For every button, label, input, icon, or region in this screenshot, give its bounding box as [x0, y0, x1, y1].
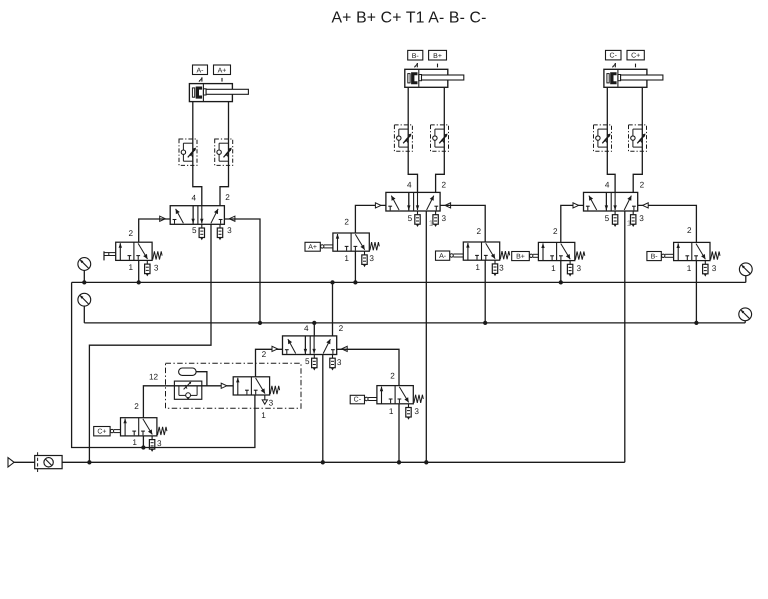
port label 2 valve A- [477, 227, 482, 236]
silencer port 3 valve 1S [145, 260, 150, 276]
cylinder A (double-acting) [189, 84, 248, 102]
silencer port 3 valve 2V1 [433, 211, 438, 227]
roller actuator + label A- [436, 251, 464, 260]
wire valve C- port 1 to bus3 [398, 404, 400, 463]
svg-text:3: 3 [269, 398, 274, 407]
wire valve C+ port 1 to feed line [142, 436, 144, 448]
svg-text:2: 2 [134, 402, 139, 411]
port label 3 valve C+ [157, 439, 162, 448]
svg-text:3: 3 [227, 226, 232, 235]
wire cylinder A left port to valve 1A port 4 [193, 102, 202, 206]
ruler mark A+ [221, 78, 223, 82]
pilot triangle timer input [221, 383, 227, 388]
svg-text:1: 1 [389, 407, 394, 416]
flow control valve 3V3 (cyl C left) [594, 125, 612, 151]
valve C+ roller 3/2 [121, 418, 167, 436]
port label 4 valve 1V1 [192, 193, 197, 202]
wire valve A+ port 2 to valve 2V1 left pilot [355, 205, 386, 233]
ruler mark B+ [437, 64, 439, 68]
wire valve T1 port 2 to bus1 [332, 282, 334, 336]
valve A+ roller 3/2 [333, 233, 379, 251]
svg-text:1: 1 [627, 219, 632, 228]
junction bus2 #2 [312, 321, 316, 325]
svg-text:A+ B+ C+ T1 A- B- C-: A+ B+ C+ T1 A- B- C- [331, 10, 486, 27]
wire valve 3V1 port 1 to bus3 [624, 211, 626, 462]
silencer port 3 valve T1 [330, 355, 335, 371]
flow control valve 2V3 (cyl B left) [394, 125, 412, 151]
svg-text:1: 1 [551, 264, 556, 273]
wire bus1-left drop to C+/timer feed line [72, 282, 255, 447]
cylinder B (double-acting) [405, 69, 464, 87]
junction bus2 #1 [258, 321, 262, 325]
silencer port 3 valve C+ [149, 436, 154, 452]
port label 3 valve T1 [337, 358, 342, 367]
silencer port 3 valve 3V1 [631, 211, 636, 227]
svg-text:3: 3 [577, 264, 582, 273]
svg-text:1: 1 [475, 263, 480, 272]
svg-text:B+: B+ [516, 253, 525, 260]
port label 5 valve 1V1 [192, 226, 197, 235]
wire timer valve port 2 to valve T1 left pilot [256, 349, 283, 377]
svg-text:1: 1 [344, 254, 349, 263]
timer unit box (dash-dot) [166, 363, 302, 408]
port label 1 valve 2V1 [429, 219, 434, 228]
wire source to service unit [14, 461, 35, 463]
svg-text:5: 5 [605, 214, 610, 223]
svg-text:1: 1 [429, 219, 434, 228]
svg-text:B+: B+ [433, 53, 442, 60]
junction bus1 #4 [353, 280, 357, 284]
pressure gauge Z1 (left upper) [78, 258, 91, 271]
port label 1 valve B- [687, 264, 692, 273]
port label 3 valve B+ [577, 264, 582, 273]
silencer port 3 valve A+ [362, 251, 367, 267]
flow control valve 1V2 (cyl A right) [215, 139, 233, 165]
port label 5 valve 3V1 [605, 214, 610, 223]
ruler mark A- (actual position) [199, 77, 203, 82]
wire valve 1V1 right pilot to bus2 [224, 219, 260, 323]
svg-text:3: 3 [712, 264, 717, 273]
junction bus2 #3 [483, 321, 487, 325]
roller actuator + label A+ [305, 242, 333, 251]
port label 1 valve 1S [129, 263, 134, 272]
port label 2 valve T1 [339, 324, 344, 333]
wire valve 1S port 2 to valve 1V1 left pilot [139, 219, 171, 242]
svg-text:A+: A+ [308, 244, 317, 251]
valve B+ roller 3/2 [538, 242, 584, 260]
wire valve T1 port 4 to bus2 [313, 323, 315, 336]
junction bus1 #2 [137, 280, 141, 284]
flow control valve 3V2 (cyl C right) [629, 125, 647, 151]
cylinder C (double-acting) [604, 69, 663, 87]
flow control valve 2V2 (cyl B right) [431, 125, 449, 151]
svg-text:5: 5 [305, 357, 310, 366]
svg-text:3: 3 [414, 407, 419, 416]
svg-text:3: 3 [157, 439, 162, 448]
junction bus3 #1 [87, 460, 91, 464]
label box A- [193, 65, 208, 75]
ruler mark B- (actual position) [414, 63, 418, 68]
wire valve A+ port 1 to bus1 [354, 251, 356, 282]
svg-text:3: 3 [154, 264, 159, 273]
pressure gauge Z4 (right lower) [739, 308, 752, 321]
valve T1 5/2 impulse [272, 336, 347, 355]
junction bus1 #3 [330, 280, 334, 284]
wire gauge Z1 to bus1 [83, 270, 85, 282]
svg-text:2: 2 [129, 229, 134, 238]
port label 4 valve T1 [304, 324, 309, 333]
wire cylinder C right port to valve 3V1 port 2 [633, 87, 642, 192]
flow control valve 1V3 (cyl A left) [179, 139, 197, 165]
junction bus1 #5 [559, 280, 563, 284]
wire valve A- port 1 to bus2 [484, 260, 486, 323]
svg-text:2: 2 [687, 226, 692, 235]
wire valve B+ port 2 to valve 3V1 left pilot [561, 205, 584, 242]
timer throttle check valve [174, 381, 201, 400]
silencer port 5 valve 1V1 [199, 224, 204, 240]
wire valve B- port 1 to bus2 [695, 261, 697, 323]
svg-text:3: 3 [639, 214, 644, 223]
silencer port 3 valve B- [703, 261, 708, 277]
silencer port 5 valve 2V1 [415, 211, 420, 227]
svg-text:3: 3 [337, 358, 342, 367]
svg-text:A+: A+ [218, 67, 227, 74]
valve A- roller 3/2 [463, 242, 509, 260]
wire gauge Z2 to bus2 [83, 306, 85, 323]
svg-text:4: 4 [192, 193, 197, 202]
valve 1V1 5/2 impulse (group A) [160, 206, 235, 225]
valve 3V1 5/2 impulse (group C) [573, 192, 648, 211]
svg-text:12: 12 [149, 373, 159, 382]
silencer port 3 valve 1V1 [217, 224, 222, 240]
svg-text:4: 4 [407, 181, 412, 190]
port label 3 valve 3V1 [639, 214, 644, 223]
port label 1 valve A+ [344, 254, 349, 263]
valve B- roller 3/2 [674, 242, 720, 260]
valve 2V1 5/2 impulse (group B) [375, 192, 450, 211]
port label 3 valve 1V1 [227, 226, 232, 235]
wire valve 1S port 1 to bus1 [138, 260, 140, 282]
wire valve 1V1 port 1 to bus3 [89, 224, 211, 462]
port label 2 valve B+ [553, 227, 558, 236]
wire gauge Z3 to bus1 [745, 276, 747, 283]
port label 4 valve 2V1 [407, 181, 412, 190]
supply line 1 (bus P1) [72, 281, 746, 283]
junction feed line [141, 445, 145, 449]
svg-text:4: 4 [605, 181, 610, 190]
wire valve C+ port 2 to timer port 12 [143, 386, 233, 418]
wire gauge Z4 to bus2 [744, 321, 746, 323]
wire cylinder B right port to valve 2V1 port 2 [436, 87, 445, 192]
svg-text:2: 2 [477, 227, 482, 236]
svg-text:2: 2 [339, 324, 344, 333]
label box B- [408, 50, 423, 60]
port label 3 valve B- [712, 264, 717, 273]
silencer port 5 valve 3V1 [612, 211, 617, 227]
svg-text:2: 2 [442, 181, 447, 190]
svg-text:5: 5 [408, 214, 413, 223]
roller actuator + label C- [350, 395, 377, 404]
svg-text:1: 1 [261, 411, 266, 420]
port label 2 valve 3V1 [640, 181, 645, 190]
ruler mark C- (actual position) [612, 63, 616, 68]
svg-text:5: 5 [192, 226, 197, 235]
air reservoir (timer) [179, 368, 197, 375]
junction bus2 #4 [694, 321, 698, 325]
junction bus3 #3 [397, 460, 401, 464]
svg-text:2: 2 [553, 227, 558, 236]
pressure gauge Z3 (right upper) [739, 263, 752, 276]
wire cylinder B left port to valve 2V1 port 4 [408, 87, 417, 192]
svg-text:1: 1 [687, 264, 692, 273]
svg-text:A-: A- [197, 67, 205, 74]
valve 1S manual 3/2 (start) [116, 242, 162, 260]
svg-text:2: 2 [344, 217, 349, 226]
silencer port 3 valve C- [406, 404, 411, 420]
svg-text:C+: C+ [631, 53, 640, 60]
ruler mark C+ [635, 64, 637, 68]
valve 1V4 timer 3/2 [233, 377, 279, 395]
svg-text:2: 2 [390, 371, 395, 380]
plunger actuator valve 1S [104, 251, 116, 260]
svg-text:2: 2 [262, 350, 267, 359]
port label 5 valve T1 [305, 357, 310, 366]
port label 3 valve A- [499, 263, 504, 272]
supply line 3 (bus P3 from service unit) [62, 461, 625, 463]
svg-text:1: 1 [129, 263, 134, 272]
svg-text:3: 3 [442, 214, 447, 223]
svg-text:2: 2 [225, 193, 230, 202]
port label 1 valve C+ [132, 438, 137, 447]
roller actuator + label B- [647, 252, 674, 261]
port label 1 valve 3V1 [627, 219, 632, 228]
wire valve A- port 2 to valve 2V1 right pilot [440, 205, 485, 242]
label box B+ [429, 50, 447, 60]
svg-text:1: 1 [132, 438, 137, 447]
wire valve B+ port 1 to bus1 [560, 261, 562, 283]
junction bus1 #1 [82, 280, 86, 284]
port label 2 valve 1V1 [225, 193, 230, 202]
svg-text:3: 3 [499, 263, 504, 272]
junction bus3 #2 [321, 460, 325, 464]
roller actuator + label C+ [94, 427, 121, 436]
silencer port 5 valve T1 [312, 355, 317, 371]
svg-text:4: 4 [304, 324, 309, 333]
port label 1 timer valve [261, 411, 266, 420]
wire valve T1 port 1 to bus3 [322, 355, 324, 463]
port label 2 valve C- [390, 371, 395, 380]
title [331, 10, 486, 27]
silencer port 3 valve B+ [567, 261, 572, 277]
svg-text:C+: C+ [97, 429, 106, 436]
port label 2 valve 1S [129, 229, 134, 238]
svg-text:3: 3 [369, 254, 374, 263]
svg-text:C-: C- [354, 397, 362, 404]
svg-text:B-: B- [651, 253, 659, 260]
wire valve 2V1 port 1 to bus3 [425, 211, 427, 462]
label box C- [606, 50, 622, 60]
svg-text:C-: C- [610, 53, 618, 60]
port label 2 timer valve [262, 350, 267, 359]
valve C- roller 3/2 [377, 386, 423, 404]
port label 3 valve A+ [369, 254, 374, 263]
port label 2 valve B- [687, 226, 692, 235]
port label 5 valve 2V1 [408, 214, 413, 223]
port label 1 valve C- [389, 407, 394, 416]
label box A+ [214, 65, 231, 75]
exhaust port 3 timer valve [262, 395, 267, 404]
svg-text:A-: A- [439, 253, 447, 260]
pressure gauge Z2 (left lower) [78, 293, 91, 306]
svg-text:B-: B- [412, 53, 420, 60]
port label 1 valve A- [475, 263, 480, 272]
air service unit U0 [35, 452, 62, 474]
port label 2 valve 2V1 [442, 181, 447, 190]
port label 12 timer [149, 373, 159, 382]
label box C+ [627, 50, 644, 60]
port label 3 valve C- [414, 407, 419, 416]
silencer port 3 valve A- [492, 260, 497, 276]
port label 3 valve 1S [154, 264, 159, 273]
junction bus3 #4 [424, 460, 428, 464]
wire cylinder C left port to valve 3V1 port 4 [607, 87, 615, 192]
roller actuator + label B+ [512, 252, 539, 261]
compressed air source [8, 458, 14, 467]
port label 3 timer valve [269, 398, 274, 407]
wire valve T1 right pilot to valve C- port 2 [337, 349, 399, 385]
wire cylinder A right port to valve 1A port 2 [220, 102, 229, 206]
port label 2 valve C+ [134, 402, 139, 411]
port label 4 valve 3V1 [605, 181, 610, 190]
supply line 2 (bus P2) [84, 322, 745, 324]
port label 3 valve 2V1 [442, 214, 447, 223]
wire reservoir to pilot line [196, 372, 207, 386]
port label 1 valve B+ [551, 264, 556, 273]
port label 2 valve A+ [344, 217, 349, 226]
svg-text:2: 2 [640, 181, 645, 190]
wire valve B- port 2 from valve 3V1 right pilot [638, 205, 697, 242]
